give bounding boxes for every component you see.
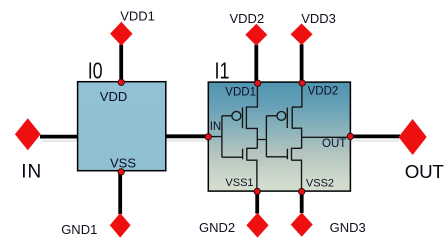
port diamond GND2 [246, 213, 268, 238]
transistor PM1 (pmos inverter 2) [266, 85, 302, 149]
pin dot I1 VDD2 [299, 80, 305, 86]
port diamond OUT [399, 119, 427, 155]
inverter 1 gate net wire [208, 116, 222, 157]
wire inverter1 out to inverter2 in [257, 116, 266, 157]
pin dot I1 VDD1 [255, 80, 261, 86]
pin dot I1 VSS1 [254, 188, 260, 194]
svg-text:GND1: GND1 [61, 222, 97, 237]
svg-text:VDD1: VDD1 [225, 86, 256, 98]
port diamond VDD3 [291, 24, 313, 46]
svg-text:IN: IN [210, 121, 222, 133]
wire shadow OUT [351, 140, 399, 142]
wire GND1 diamond to I0 VSS pin [118, 172, 122, 214]
svg-text:OUT: OUT [322, 138, 346, 150]
pin dot I1 IN [205, 134, 211, 140]
svg-text:VDD2: VDD2 [308, 85, 339, 97]
wire shadow mid [166, 139, 208, 141]
wire VDD3 diamond to I1 VDD2 pin [300, 44, 304, 83]
svg-text:I0: I0 [88, 58, 103, 84]
wire VDD1 diamond to I0 VDD pin [119, 45, 123, 83]
port diamond VDD2 [245, 24, 267, 46]
block I1 body [208, 82, 350, 191]
wire IN diamond to I0 [40, 135, 78, 139]
svg-text:IN: IN [21, 161, 42, 182]
port diamond VDD1 [110, 22, 132, 46]
svg-text:GND3: GND3 [330, 220, 366, 235]
wire I0 to I1 [166, 134, 208, 138]
pin dot I1 VSS2 [299, 188, 305, 194]
svg-text:OUT: OUT [405, 161, 444, 182]
pin dot I1 OUT [347, 133, 353, 139]
transistor NM0 (nmos inverter 1) [222, 148, 257, 191]
pin dot I0 VSS [118, 169, 124, 175]
port diamond GND3 [291, 213, 313, 237]
svg-text:VDD2: VDD2 [230, 11, 265, 26]
wire inverter2 out to OUT pin [302, 136, 351, 138]
wire VSS1 pin to GND2 diamond [255, 191, 259, 213]
block I0 body [78, 82, 166, 171]
svg-text:GND2: GND2 [199, 220, 235, 235]
svg-text:VSS1: VSS1 [225, 177, 253, 189]
svg-text:VDD3: VDD3 [301, 11, 336, 26]
transistor NM1 (nmos inverter 2) [266, 148, 301, 191]
svg-text:VSS2: VSS2 [306, 177, 334, 189]
wire I1 to OUT diamond [350, 134, 400, 138]
svg-text:VSS: VSS [110, 156, 136, 171]
port diamond GND1 [110, 213, 131, 238]
pin dot I0 VDD [118, 79, 124, 85]
svg-text:VDD: VDD [100, 89, 127, 104]
port diamond IN [15, 118, 41, 150]
wire VSS2 pin to GND3 diamond [300, 191, 304, 213]
wire VDD2 diamond to I1 VDD1 pin [254, 45, 258, 83]
transistor PM0 (pmos inverter 1) [222, 85, 258, 149]
svg-text:I1: I1 [215, 59, 230, 85]
svg-text:VDD1: VDD1 [120, 8, 155, 23]
wire shadow IN [42, 140, 77, 142]
